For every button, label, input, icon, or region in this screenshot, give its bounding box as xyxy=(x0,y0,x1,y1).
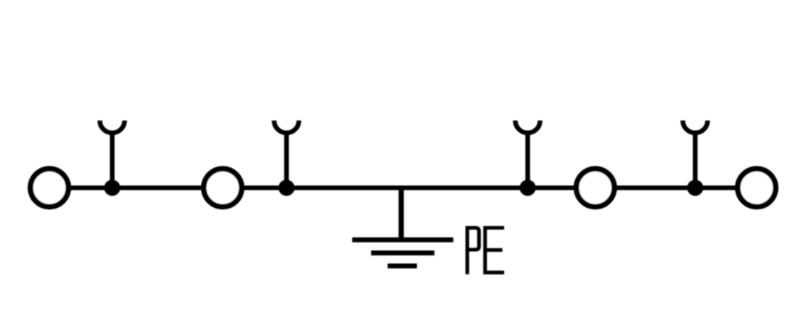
wire: bus segment between terminal 1 and terminal 2 xyxy=(70,185,203,190)
test tap 4: socket arc xyxy=(683,121,708,133)
terminal circle 1 (left conductor connection) xyxy=(30,169,68,207)
junction dot 3 xyxy=(520,180,536,196)
test tap 3: socket arc xyxy=(515,121,540,133)
test tap 2: stem wire xyxy=(284,132,289,188)
terminal circle 2 xyxy=(204,169,242,207)
ground: stem wire from bus xyxy=(399,188,404,240)
wire: bus segment between terminal 2 and terminal 3 xyxy=(243,185,575,190)
label PE: letter E xyxy=(485,228,504,273)
wire: bus segment between terminal 3 and terminal 4 xyxy=(616,185,737,190)
test tap 1: socket arc xyxy=(100,121,125,133)
terminal circle 3 xyxy=(576,169,614,207)
ground: bar 3 (bottom, shortest) xyxy=(388,263,417,268)
test tap 2: socket arc xyxy=(274,121,299,133)
junction dot 1 xyxy=(104,180,120,196)
junction dot 2 xyxy=(278,180,294,196)
terminal circle 4 (right conductor connection) xyxy=(738,169,776,207)
ground: bar 2 (middle) xyxy=(371,250,434,255)
test tap 3: stem wire xyxy=(525,132,530,188)
ground: bar 1 (top, widest) xyxy=(352,237,453,242)
junction dot 4 xyxy=(687,180,703,196)
test tap 1: stem wire xyxy=(110,132,115,188)
label PE: letter P xyxy=(467,228,479,274)
test tap 4: stem wire xyxy=(693,132,698,188)
